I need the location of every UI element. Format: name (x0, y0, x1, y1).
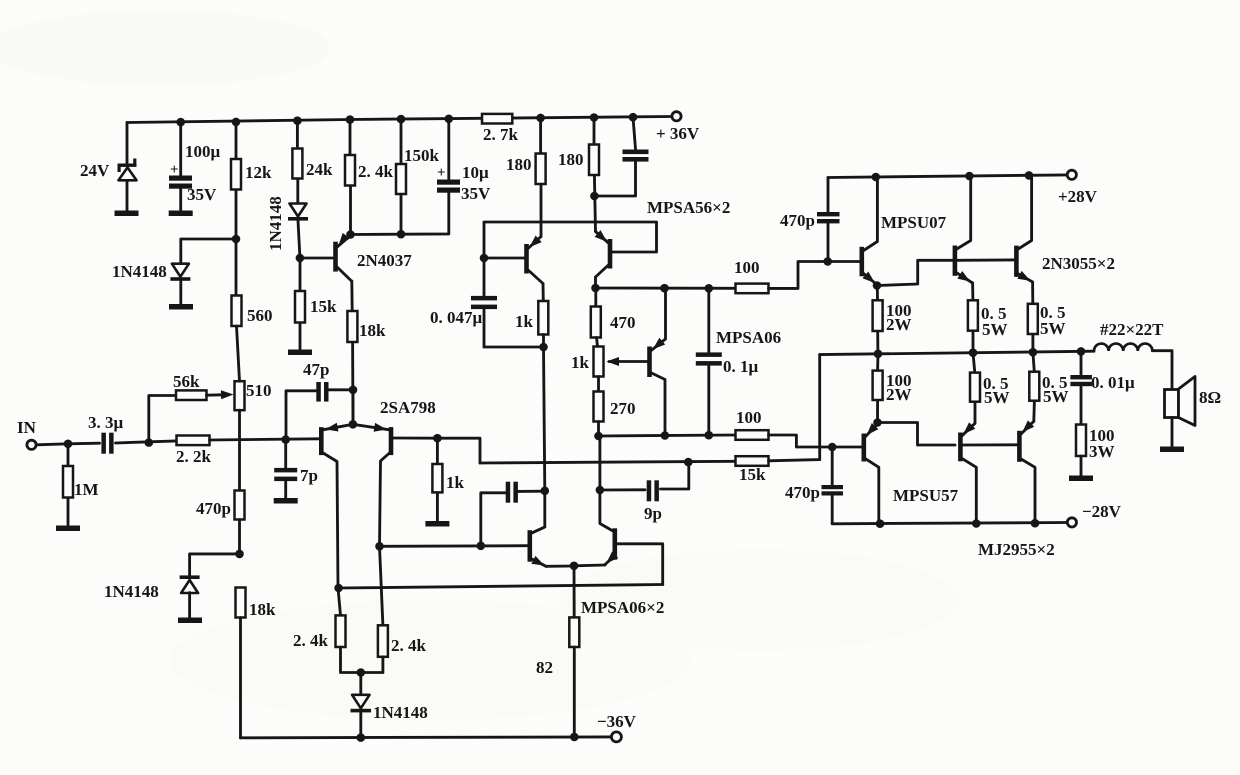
transistor drvL collector (865, 458, 879, 523)
node 1M top (64, 440, 73, 449)
terminal IN (27, 440, 36, 449)
wire 510 down (238, 410, 241, 490)
capacitor rail bypass (623, 150, 649, 162)
ground 100 3W (1069, 476, 1093, 482)
label 18k upper (359, 321, 386, 340)
node 2N4037 emitter rail (346, 230, 355, 239)
node 470p-u bottom (823, 257, 832, 266)
svg-text:5W: 5W (982, 320, 1008, 339)
resistor 18k lower (236, 588, 246, 618)
wire 100-3W gnd (1080, 456, 1083, 475)
transistor MPSA56 R collector (596, 265, 610, 289)
transistor outU2 collector (1017, 175, 1031, 249)
capacitor 9p (647, 480, 659, 501)
wire MPSA56 L base (484, 257, 524, 260)
label #22x22T (1100, 320, 1164, 339)
transistor diff L bar (528, 530, 533, 562)
label MPSA06x2 (581, 598, 664, 617)
label 7p (300, 466, 318, 485)
wire diff emitters b (574, 564, 605, 568)
wire 2.4k-top leads (349, 120, 352, 235)
node top rail / 24k (293, 116, 302, 125)
wire input line (37, 443, 100, 445)
transistor 2SA798 L bar (319, 427, 324, 455)
wire zener stem (126, 123, 129, 212)
label 24V (80, 161, 110, 180)
wire 470p-u stem (827, 178, 830, 262)
transistor outL2 emitter (1020, 420, 1034, 434)
resistor 470 (591, 307, 601, 338)
svg-text:−36V: −36V (597, 712, 637, 731)
svg-text:MPSU07: MPSU07 (881, 213, 947, 232)
wire 470 leads (594, 288, 597, 307)
transistor MPSA56 L emitter (528, 236, 542, 250)
label 2SA798 (380, 398, 436, 417)
transistor outL1 collector (961, 458, 976, 523)
transistor diff R emitter (605, 552, 618, 565)
inductor #22x22T (1094, 344, 1152, 351)
node 7p top (281, 435, 290, 444)
svg-text:0. 047μ: 0. 047μ (430, 308, 483, 327)
label 82 (536, 658, 553, 677)
label MJ2955x2 (978, 540, 1055, 559)
node top rail / 150k (397, 115, 406, 124)
wire 9p left (600, 488, 645, 491)
svg-text:470p: 470p (780, 211, 815, 230)
svg-text:2. 4k: 2. 4k (293, 631, 329, 650)
transistor 2SA798 L collector (322, 453, 340, 616)
label 0.5 5W l1 (983, 374, 1010, 407)
transistor drvU collector (863, 177, 878, 251)
ground 1k base (425, 521, 449, 527)
wire 15k to output (769, 355, 820, 461)
label 10u (462, 163, 489, 182)
svg-text:180: 180 (558, 150, 584, 169)
wire branch to 1N4148 a (181, 239, 236, 263)
svg-text:150k: 150k (404, 146, 440, 165)
transistor MPSA56 R bar (608, 239, 613, 269)
svg-text:MPSA06×2: MPSA06×2 (581, 598, 664, 617)
label 2.7k (483, 125, 519, 144)
wire 560-510 link (237, 326, 240, 381)
label 18k lower (249, 600, 276, 619)
capacitor 470p lower (822, 485, 844, 496)
svg-text:+: + (437, 165, 446, 181)
label -36V (597, 712, 637, 731)
resistor 100 3W (1076, 425, 1086, 457)
svg-text:35V: 35V (461, 184, 491, 203)
label 35V (187, 185, 217, 204)
resistor 12k (231, 159, 241, 190)
capacitor 0.047u (471, 296, 497, 309)
ground 7p (274, 498, 298, 504)
capacitor 0.01u (1070, 375, 1092, 386)
terminal +36V (672, 112, 681, 121)
node 2.4k join (357, 668, 366, 677)
transistor bias collector (651, 288, 666, 351)
label 0.047u (430, 308, 483, 327)
node railL q2 (972, 519, 981, 528)
node 82 rail (570, 733, 579, 742)
wire 24k leads (296, 121, 299, 203)
label 47p (303, 360, 329, 379)
node top rail / 2.4k (346, 115, 355, 124)
capacitor 7p (274, 468, 297, 481)
wire 12k chain (235, 122, 238, 296)
label 180 b (558, 150, 584, 169)
wire diff cross line (339, 585, 663, 589)
svg-text:MPSA06: MPSA06 (716, 328, 781, 347)
svg-text:470p: 470p (785, 483, 820, 502)
svg-text:470: 470 (610, 313, 636, 332)
svg-text:−28V: −28V (1082, 502, 1122, 521)
resistor 82 (569, 617, 579, 647)
svg-text:1M: 1M (74, 480, 99, 499)
wire 0.5-l1 leads (973, 353, 975, 424)
wire 0.01u stem (1080, 351, 1083, 374)
transistor bias MPSA06 bar (647, 347, 652, 378)
svg-text:1N4148: 1N4148 (266, 196, 285, 251)
potentiometer 510 (235, 381, 245, 410)
node railL q1 (876, 519, 885, 528)
svg-text:2N4037: 2N4037 (357, 251, 412, 270)
resistor 100 lower drive (736, 430, 769, 440)
diode 1N4148 c (180, 575, 200, 593)
wire 9p right (661, 462, 689, 489)
label MPSU07 (881, 213, 947, 232)
node 1k load bottom (539, 343, 548, 352)
svg-text:MPSU57: MPSU57 (893, 486, 959, 505)
node 47p tap (349, 386, 358, 395)
label 2N4037 (357, 251, 412, 270)
resistor 1k base (432, 464, 442, 492)
wire output line (820, 351, 1094, 354)
resistor 100 upper drive (736, 284, 769, 294)
label 3.3u (88, 413, 124, 432)
transistor 2N4037 collector (337, 267, 352, 282)
transistor outU1 bar (953, 246, 958, 276)
label 1k bias (571, 353, 590, 372)
node MPSA56 R collector (591, 284, 600, 293)
svg-text:100μ: 100μ (185, 142, 221, 161)
label 100 3W (1089, 426, 1115, 461)
resistor 0.5 5W u2 (1028, 304, 1038, 334)
wire 18k to rail (239, 618, 242, 738)
label 12k (245, 163, 272, 182)
label MPSA56x2 (647, 198, 730, 217)
label 15k fb (739, 465, 766, 484)
node out q1 (874, 350, 883, 359)
wire pot-270 link (597, 377, 600, 392)
label 2.4k R (391, 636, 427, 655)
wire 47p left (286, 391, 317, 440)
svg-text:1k: 1k (571, 353, 590, 372)
svg-text:3. 3μ: 3. 3μ (88, 413, 124, 432)
svg-text:2. 7k: 2. 7k (483, 125, 519, 144)
zener diode 24V (118, 159, 137, 181)
svg-text:510: 510 (246, 381, 272, 400)
svg-text:9p: 9p (644, 504, 662, 523)
label 9p (644, 504, 662, 523)
svg-text:2SA798: 2SA798 (380, 398, 436, 417)
label 100 lower drive (736, 408, 762, 427)
transistor MPSA56 L bar (524, 244, 529, 274)
wire input line c (210, 439, 320, 440)
diode 1N4148 b (288, 204, 308, 221)
label 2.4k L (293, 631, 329, 650)
transistor outL2 bar (1017, 431, 1022, 462)
label 560 (247, 306, 273, 325)
label 56k (173, 372, 200, 391)
label 100u (185, 142, 221, 161)
resistor 2.4k top (345, 155, 355, 186)
node out cap (1077, 347, 1086, 356)
wire 100 lower to base (769, 435, 862, 447)
transistor MPSA56 R emitter (595, 230, 609, 243)
resistor 180 b (589, 145, 599, 176)
wire 100драйв to base (769, 262, 862, 289)
wire 100u stem (179, 122, 182, 210)
svg-text:7p: 7p (300, 466, 318, 485)
node rail q2 (965, 172, 974, 181)
wire step to feedback (437, 438, 480, 463)
transistor outU1 emitter (956, 271, 973, 283)
resistor 150k (396, 164, 406, 194)
node 270 bottom (594, 432, 603, 441)
node top rail / 12k (232, 118, 241, 127)
wire 82 to rail (573, 647, 576, 737)
wire 180b leads (594, 118, 596, 232)
label + 10u (437, 165, 446, 181)
wire input line b (116, 441, 177, 443)
resistor 1M (63, 466, 73, 498)
node 2SA798 emitters (349, 420, 358, 429)
wire bypass cap stem (594, 117, 635, 196)
resistor 24k (292, 149, 302, 179)
svg-text:0. 1μ: 0. 1μ (723, 357, 759, 376)
svg-text:15k: 15k (739, 465, 766, 484)
svg-text:5W: 5W (1043, 387, 1069, 406)
label 100 upper drive (734, 258, 760, 277)
resistor 2.2k (177, 436, 210, 446)
ground 1M (56, 526, 80, 532)
svg-text:24V: 24V (80, 161, 110, 180)
transistor 2N4037 emitter (337, 233, 351, 248)
wire outL base line (963, 443, 1017, 446)
transistor drvL emitter (865, 423, 879, 437)
svg-text:+ 36V: + 36V (656, 124, 700, 143)
svg-text:2. 2k: 2. 2k (176, 447, 212, 466)
wire 7p stem (284, 440, 287, 498)
node 470p bottom (235, 550, 244, 559)
node diff cross left (334, 584, 343, 593)
svg-text:5W: 5W (1040, 319, 1066, 338)
svg-text:12k: 12k (245, 163, 272, 182)
label 1M (74, 480, 99, 499)
resistor 100 2W lower (873, 371, 883, 400)
node bias collector top (660, 284, 669, 293)
node 0.1u bottom (705, 431, 714, 440)
capacitor 47p (316, 382, 328, 402)
svg-text:8Ω: 8Ω (1199, 388, 1221, 407)
transistor diff R bar (613, 528, 618, 559)
label IN (17, 418, 37, 437)
svg-text:2. 4k: 2. 4k (358, 162, 394, 181)
svg-text:IN: IN (17, 418, 37, 437)
svg-text:15k: 15k (310, 297, 337, 316)
label 100 2W upper (886, 301, 912, 334)
label 8ohm (1199, 388, 1221, 407)
node diff L base start (375, 542, 384, 551)
transistor 2SA798 R emitter (353, 423, 389, 432)
wire node288 line (596, 287, 736, 290)
diode 1N4148 a (170, 264, 190, 281)
node diff emitters (570, 562, 579, 571)
terminal -28V (1067, 518, 1076, 527)
ground diode c (178, 618, 202, 624)
label 1N4148 d (373, 703, 428, 722)
label 2N3055x2 (1042, 254, 1115, 273)
svg-text:1k: 1k (446, 473, 465, 492)
svg-text:560: 560 (247, 306, 273, 325)
label 0.1u (723, 357, 759, 376)
wire 1k base leads (436, 438, 439, 520)
wire inductor to speaker (1152, 351, 1172, 390)
wire diode d top (359, 673, 362, 695)
node top rail / 100u (176, 118, 185, 127)
resistor 0.5 5W l2 (1029, 372, 1039, 401)
wire drvL step (878, 423, 956, 446)
wire 100-2W-u leads (876, 286, 879, 354)
resistor 560 (232, 296, 242, 327)
transistor outL1 bar (958, 433, 963, 462)
capacitor 10u electrolytic (437, 180, 460, 193)
svg-text:+28V: +28V (1058, 187, 1098, 206)
wire comp left (481, 493, 506, 546)
svg-text:56k: 56k (173, 372, 200, 391)
wire +36V top rail (127, 117, 672, 123)
transistor diff R collector (600, 435, 614, 531)
wire 470-pot link (597, 338, 598, 347)
wire 2.4k R bottom (361, 657, 383, 673)
label MPSA06 bias (716, 328, 781, 347)
svg-text:100: 100 (736, 408, 762, 427)
wire base crossover loop (484, 222, 657, 258)
node top rail / 180a (536, 114, 545, 123)
svg-text:100: 100 (734, 258, 760, 277)
wire 56k arrow to pot (207, 390, 234, 399)
capacitor 470p upper (817, 212, 840, 223)
svg-text:MJ2955×2: MJ2955×2 (978, 540, 1055, 559)
node 12k/560/diode branch (232, 235, 241, 244)
wire drvU step (877, 260, 953, 285)
label 470p lower (785, 483, 820, 502)
wire diode a to gnd (179, 281, 182, 304)
wire 2.4k L bottom (341, 647, 361, 673)
resistor 0.5 5W l1 (970, 373, 980, 402)
label 1N4148 a (112, 262, 167, 281)
transistor diff L collector (531, 527, 545, 534)
resistor 270 (594, 392, 604, 422)
ground zener (115, 211, 139, 217)
node 180b cap junction (590, 192, 599, 201)
svg-text:18k: 18k (249, 600, 276, 619)
label 24k (306, 160, 333, 179)
wire diode b to base node (298, 221, 300, 258)
wire 180a leads (539, 118, 542, 237)
node out q2 (969, 348, 978, 357)
wire 270 bottom (597, 422, 600, 437)
transistor 2SA798 L emitter (324, 423, 353, 432)
svg-text:1k: 1k (515, 312, 534, 331)
svg-text:180: 180 (506, 155, 532, 174)
svg-text:MPSA56×2: MPSA56×2 (647, 198, 730, 217)
label 470 (610, 313, 636, 332)
svg-text:2. 4k: 2. 4k (391, 636, 427, 655)
wire diode c gnd (188, 593, 191, 618)
wire 470p down (238, 520, 241, 554)
wire outU base line (957, 258, 1014, 261)
transistor outL2 collector (1020, 459, 1035, 524)
capacitor comp (506, 482, 518, 503)
node rail q1 (872, 173, 881, 182)
wire pot wiper arrow (607, 357, 649, 366)
node drvU emitter (873, 281, 882, 290)
svg-text:2W: 2W (886, 385, 912, 404)
wire -36V rail (241, 735, 612, 739)
wire VAS vertical (531, 335, 545, 534)
ground speaker (1160, 447, 1184, 453)
resistor 56k (176, 390, 207, 400)
transistor diff L emitter (531, 556, 546, 566)
wire 47p right (329, 388, 354, 391)
node bias emitter bottom (661, 431, 670, 440)
wire 0.5-u1 leads (971, 283, 974, 353)
transistor outU2 emitter (1017, 271, 1032, 282)
wire tail to 82 (573, 566, 576, 618)
resistor 180 a (536, 154, 546, 185)
resistor 2.7k (482, 114, 512, 124)
terminal -36V (611, 732, 621, 742)
wire 150k leads (400, 119, 403, 234)
svg-text:18k: 18k (359, 321, 386, 340)
ground diode a (169, 304, 193, 310)
wire emitter rail to 10u (351, 191, 449, 235)
wire diff R base stub (617, 544, 663, 585)
svg-text:1N4148: 1N4148 (104, 582, 159, 601)
label + 100u (170, 162, 179, 178)
wire 0.5-u2 leads (1031, 282, 1034, 352)
label 0.5 5W u1 (981, 304, 1008, 339)
wire diff emitters (546, 565, 574, 568)
transistor MPSA56 L collector (528, 270, 544, 284)
transistor 2N4037 bar (333, 242, 338, 272)
node 0.1u top (705, 284, 714, 293)
resistor 15k left (295, 291, 305, 323)
node out q3 (1029, 348, 1038, 357)
capacitor 3.3u (101, 433, 113, 454)
node rail q3 (1025, 171, 1034, 180)
node 2N4037 base (296, 254, 305, 263)
wire 15k-left leads (299, 258, 302, 349)
label 0.01u (1091, 373, 1135, 392)
transistor outL1 emitter (961, 422, 975, 436)
svg-text:270: 270 (610, 399, 636, 418)
resistor 1k load (538, 301, 548, 335)
label 470p upper (780, 211, 815, 230)
wire 2SA798 R base (394, 437, 438, 440)
potentiometer 1k bias (594, 347, 604, 377)
